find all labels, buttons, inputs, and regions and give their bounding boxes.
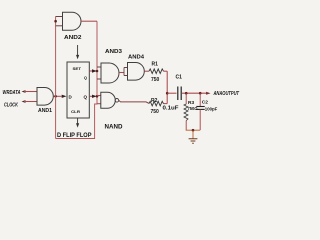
wire flip-flop Q output [89,70,92,72]
svg-text:AND3: AND3 [105,49,122,55]
svg-text:AND1: AND1 [38,108,52,114]
nand-gate NAND input stubs [97,95,101,97]
junction node R3 tap [185,92,188,95]
ground stem [192,130,194,138]
resistor R2 [149,101,164,106]
svg-text:ANAOUTPUT: ANAOUTPUT [213,91,240,97]
and-gate AND3 [101,63,119,83]
and-gate AND4 input join [124,68,128,76]
wire AND3 output to AND4 [119,72,124,74]
wire WRDATA to AND1 [24,91,37,93]
svg-text:CLOCK: CLOCK [4,103,19,109]
net line A (left vertical feedback) [55,17,57,139]
wire C2 to ground rail [199,109,201,130]
svg-text:Q: Q [84,76,87,80]
junction node summing [166,92,169,95]
svg-text:AND4: AND4 [128,55,145,61]
wire down to C2 [199,93,201,106]
svg-text:0.1uF: 0.1uF [163,105,179,111]
wire AND1 output to flip-flop [54,95,62,97]
and-gate AND1 [37,88,53,106]
svg-text:CLR: CLR [71,109,80,114]
port arrow WRDATA [22,90,26,93]
svg-text:100pF: 100pF [205,107,218,113]
wire R3 to ground rail [185,121,187,131]
svg-text:WRDATA: WRDATA [3,90,21,96]
capacitor C2 [196,106,204,108]
svg-text:SET: SET [73,66,82,71]
flip-flop SET pin stub (top) [77,45,79,55]
ground rail [186,129,200,131]
output arrowhead [206,92,210,95]
svg-text:R3: R3 [188,100,194,106]
net line C (right vertical from AND2 output down with feedback to line A) [56,21,97,138]
wire flip-flop Qbar output [89,95,92,97]
svg-text:Q: Q [84,94,88,99]
junction node ground rail [192,129,195,132]
junction node at AND1 output [54,95,57,98]
junction node on line A at AND2 input [54,20,57,23]
capacitor C1 [177,87,179,101]
summing node bracket wire [166,71,168,103]
arrowhead into flip-flop D input [61,95,67,97]
svg-text:AND2: AND2 [64,35,82,41]
and-gate AND2 [63,12,82,30]
svg-text:750: 750 [151,77,160,83]
and-gate AND4 [128,63,145,81]
wire CLOCK to AND1 [24,101,37,103]
D flip-flop box U1 [67,62,89,118]
ground symbol [189,139,198,143]
flip-flop CLR pin stub (bottom) [77,118,79,124]
svg-text:750Ω: 750Ω [188,106,198,112]
svg-text:R1: R1 [152,62,159,68]
and-gate AND3 input stubs [97,66,101,68]
junction node C2 tap [199,92,202,95]
wire C1 to output [182,92,207,94]
svg-text:R2: R2 [151,98,158,104]
svg-text:NAND: NAND [105,125,124,131]
wire AND4 output to R1 [145,70,150,72]
svg-text:C2: C2 [202,100,208,106]
resistor R1 [149,69,164,74]
and-gate AND2 input stubs [56,16,63,18]
wire R1 to summing node [164,70,168,72]
wire R2 to summing node [164,103,168,105]
svg-text:750: 750 [151,109,160,115]
svg-text:D FLIP FLOP: D FLIP FLOP [57,132,92,139]
wire NAND output to R2 [119,100,149,103]
junction node Q to net C [96,70,99,73]
wire down to R3 [185,93,187,104]
wire summing node to C1 [167,92,176,94]
svg-text:C1: C1 [176,74,183,80]
port arrow CLOCK [22,100,26,103]
nand-gate NAND [101,92,116,108]
resistor R3 (vertical) [184,104,188,121]
junction node Qbar to net C [96,95,99,98]
nand-gate NAND output bubble [115,99,119,103]
wire AND2 output [81,20,97,22]
